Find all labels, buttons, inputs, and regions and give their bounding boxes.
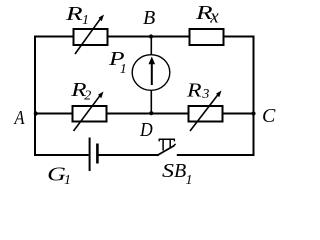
resistor Rx — [190, 29, 224, 45]
svg-text:R: R — [65, 3, 83, 25]
wire B to P1 — [150, 37, 152, 56]
svg-text:x: x — [209, 7, 219, 28]
node D — [149, 111, 153, 115]
wire switch to bottom right corner — [177, 154, 255, 156]
svg-text:1: 1 — [64, 173, 71, 188]
svg-text:B: B — [174, 160, 186, 182]
wire P1 to D — [150, 90, 152, 114]
resistor R3 — [189, 91, 223, 132]
svg-text:2: 2 — [84, 88, 91, 103]
resistor R2 — [73, 92, 107, 132]
svg-text:1: 1 — [186, 173, 193, 188]
battery G1 — [90, 138, 98, 172]
wire bottom left to battery — [34, 154, 89, 156]
wire middle A-D-C — [34, 113, 255, 115]
svg-text:A: A — [14, 106, 26, 128]
node B — [149, 34, 153, 38]
node A — [34, 111, 38, 115]
svg-text:1: 1 — [82, 13, 89, 28]
switch SB1 — [157, 139, 176, 155]
node C — [251, 111, 255, 115]
wire left side — [34, 36, 36, 157]
wire top A-B-C — [34, 36, 255, 38]
svg-text:R: R — [186, 78, 202, 101]
svg-text:C: C — [262, 105, 276, 127]
svg-text:D: D — [139, 119, 153, 141]
svg-text:S: S — [162, 159, 174, 182]
svg-text:B: B — [143, 7, 155, 29]
wire battery to switch — [98, 154, 158, 156]
wire right side — [253, 36, 255, 157]
galvanometer P1 — [132, 55, 170, 91]
svg-text:3: 3 — [201, 87, 209, 102]
svg-text:1: 1 — [120, 62, 127, 77]
resistor R1 — [74, 15, 108, 55]
